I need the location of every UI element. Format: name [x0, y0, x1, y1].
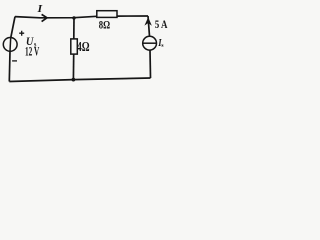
wire 4-ohm branch (resistor to bottom junction)	[72, 54, 74, 80]
svg-text:5 A: 5 A	[155, 19, 168, 31]
node junction top of 4-ohm branch	[72, 16, 75, 19]
wire right (corner down to current-source arrow)	[148, 16, 150, 36]
wire left (voltage source down to bottom corner)	[8, 51, 11, 81]
resistor 4 ohm (vertical box)	[71, 39, 78, 54]
minus sign of Us	[12, 60, 17, 62]
wire bottom	[9, 78, 150, 82]
node junction bottom of 4-ohm branch	[72, 78, 76, 82]
arrow 5A (upward arrowhead on right wire)	[145, 18, 151, 24]
svg-text:I: I	[36, 4, 43, 15]
wire top (8-ohm resistor to right corner)	[117, 15, 148, 17]
resistor 8 ohm (box on top wire)	[97, 11, 117, 18]
voltage source Us (circle with vertical bar)	[3, 38, 17, 52]
svg-text:12 V: 12 V	[25, 46, 40, 60]
svg-text:8Ω: 8Ω	[99, 20, 110, 32]
wire top (left corner to 8-ohm resistor)	[15, 16, 97, 18]
svg-text:4Ω: 4Ω	[77, 38, 90, 54]
wire right (current source to bottom corner)	[149, 50, 152, 78]
current source Is (circle with horizontal bar)	[143, 36, 157, 50]
current arrow I on top wire	[42, 14, 47, 21]
wire 4-ohm branch (top junction to resistor)	[73, 18, 75, 39]
plus sign of Us	[19, 31, 24, 36]
wire left (top corner down to voltage source)	[11, 17, 15, 38]
svg-text:s: s	[161, 43, 164, 49]
